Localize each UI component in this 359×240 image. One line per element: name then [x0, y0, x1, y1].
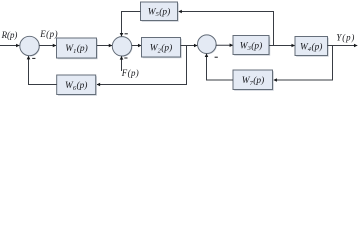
wire S3 to W3 — [216, 44, 233, 46]
block W2 — [142, 38, 182, 59]
svg-text:E(p): E(p) — [39, 29, 58, 39]
wire W1 to S2 — [97, 45, 112, 47]
wire W3 to W4 (junction at x=273) — [269, 45, 295, 47]
label R(p) — [1, 30, 18, 40]
summing junction S3 — [198, 35, 217, 54]
block W1 — [57, 38, 98, 59]
block W5 — [141, 2, 179, 22]
svg-text:W1(p): W1(p) — [65, 43, 87, 55]
svg-text:W4(p): W4(p) — [300, 41, 322, 53]
label E(p) — [39, 29, 58, 39]
wire bottom-right feedback from output down and left into W7 — [274, 46, 333, 81]
minus sign at S1 bottom input — [32, 57, 35, 59]
wire W6 output left and up into S1 bottom — [29, 56, 57, 84]
wire R input — [0, 45, 19, 47]
minus sign at S3 bottom input — [215, 56, 218, 58]
block W3 — [233, 36, 270, 56]
svg-text:R(p): R(p) — [1, 30, 18, 40]
svg-text:Y(p): Y(p) — [336, 33, 355, 43]
svg-text:W7(p): W7(p) — [242, 75, 264, 87]
wire S1 to W1 — [39, 45, 56, 47]
block W6 — [57, 75, 97, 96]
label Y(p) — [336, 33, 355, 43]
wire S2 to W2 — [132, 45, 142, 47]
wire W5 output down into S2 top — [122, 12, 141, 37]
minus sign at S2 bottom input — [124, 57, 127, 59]
wire W4 to output (junction at x=332.5) — [328, 45, 358, 47]
minus sign at S2 top input — [125, 33, 128, 35]
svg-text:W2(p): W2(p) — [150, 43, 172, 55]
block W7 — [233, 70, 274, 91]
svg-text:W3(p): W3(p) — [240, 40, 262, 52]
svg-text:W5(p): W5(p) — [148, 6, 170, 18]
wire W2 to S3 (junction at x=187) — [181, 45, 198, 47]
summing junction S1 — [20, 36, 40, 56]
label F(p) — [121, 68, 139, 78]
svg-text:F(p): F(p) — [121, 68, 139, 78]
wire W7 output left and up into S3 bottom — [207, 54, 234, 80]
wire F(p) disturbance input into S2 bottom — [121, 56, 123, 71]
wire bottom-left feedback from W2 output down and left into W6 — [97, 46, 187, 85]
svg-text:W6(p): W6(p) — [65, 80, 87, 92]
summing junction S2 — [112, 37, 132, 57]
block W4 — [295, 37, 329, 57]
wire top feedback riser from W3-W4 wire — [179, 12, 274, 46]
